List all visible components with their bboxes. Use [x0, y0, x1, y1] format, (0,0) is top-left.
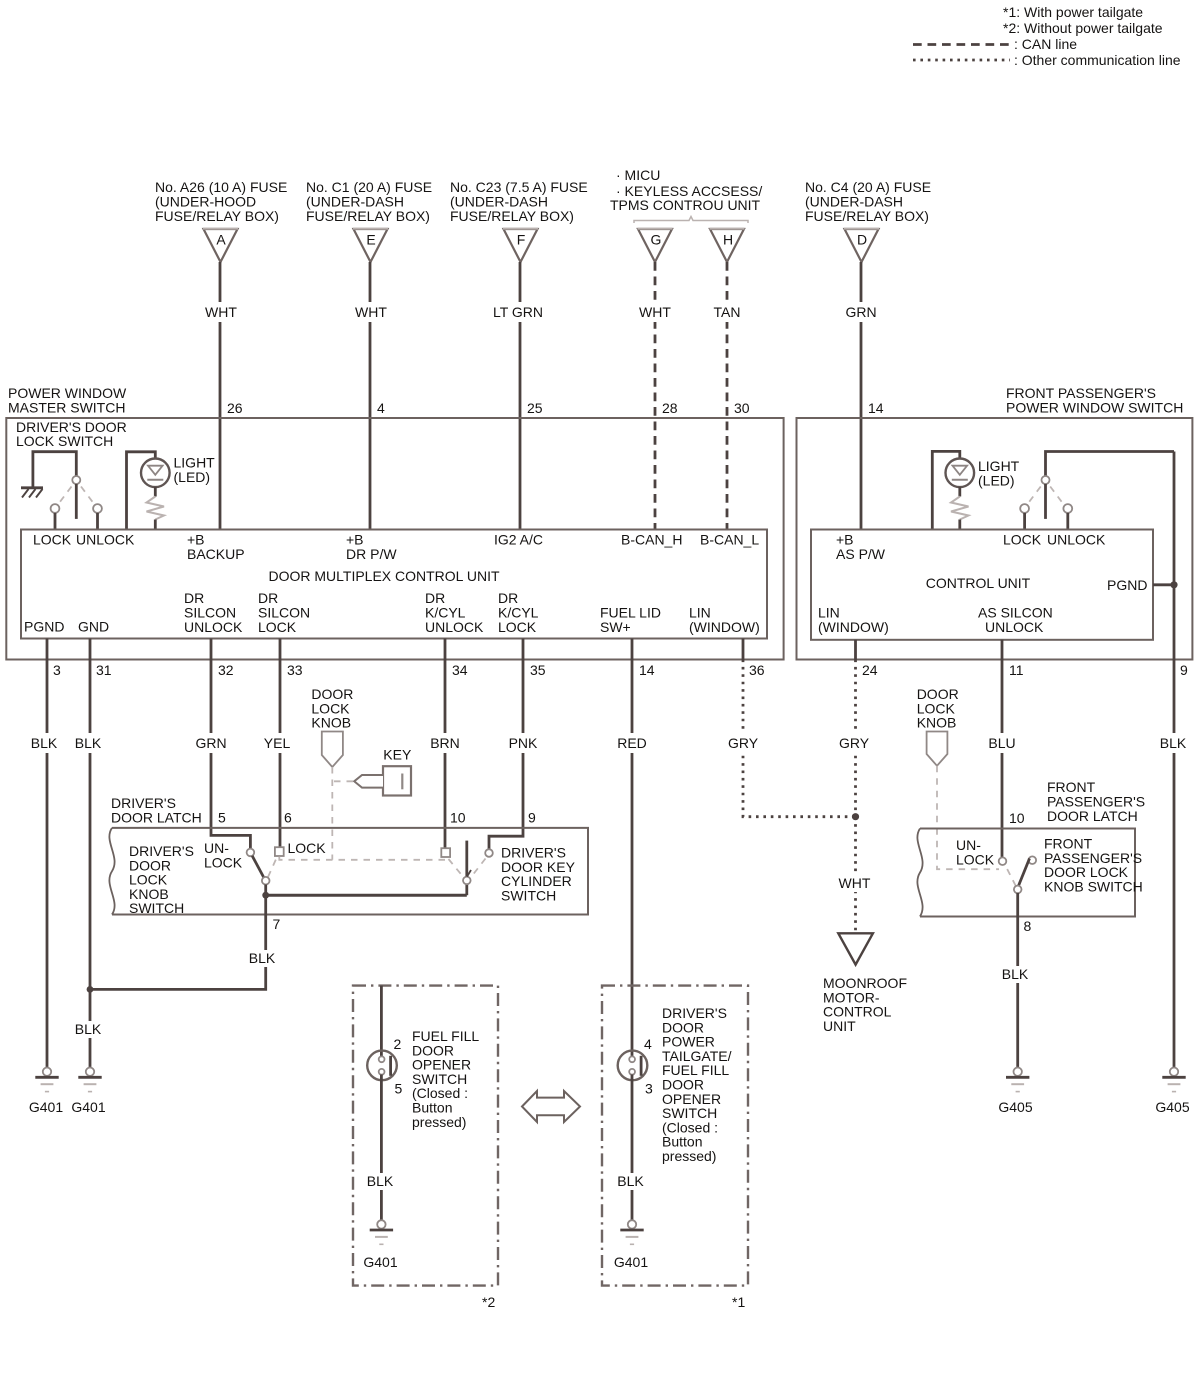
svg-text:11: 11 — [1009, 662, 1024, 678]
knob switch lock contact (square) — [275, 847, 284, 856]
svg-text:KNOB: KNOB — [917, 715, 957, 731]
key dashed link — [334, 780, 354, 782]
fuse A symbol — [204, 229, 238, 262]
svg-text:WHT: WHT — [839, 875, 871, 891]
svg-text:25: 25 — [527, 400, 543, 416]
svg-text:(WINDOW): (WINDOW) — [818, 619, 889, 635]
svg-text:(WINDOW): (WINDOW) — [689, 619, 760, 635]
svg-text:DR P/W: DR P/W — [346, 546, 397, 562]
wire fuse G to pin 28 CAN (WHT) — [654, 262, 657, 530]
driver door lock knob dashed link — [331, 767, 333, 860]
wire pin32 GRN to unlock contact — [211, 639, 250, 849]
svg-text:SWITCH: SWITCH — [501, 887, 556, 903]
svg-text:9: 9 — [528, 810, 536, 826]
svg-text:KNOB SWITCH: KNOB SWITCH — [1044, 878, 1143, 894]
svg-text:WHT: WHT — [205, 304, 237, 320]
driver's door lock switch UNLOCK contact — [93, 504, 102, 513]
svg-text:34: 34 — [452, 662, 468, 678]
driver's door latch box — [112, 828, 588, 915]
svg-text:FUSE/RELAY BOX): FUSE/RELAY BOX) — [306, 208, 430, 224]
passenger knob switch right contact — [1029, 856, 1037, 864]
svg-text:PNK: PNK — [509, 735, 538, 751]
fuel fill switch symbol — [367, 1051, 397, 1081]
svg-text:8: 8 — [1024, 918, 1032, 934]
svg-text:BACKUP: BACKUP — [187, 546, 245, 562]
svg-text:4: 4 — [644, 1036, 652, 1052]
svg-text:TPMS CONTROU UNIT: TPMS CONTROU UNIT — [610, 197, 761, 213]
passenger LED branch wire — [932, 451, 960, 529]
key cylinder BRN contact (square) — [441, 848, 450, 857]
LED lamp circle (LIGHT) — [141, 459, 170, 488]
driver's door power tailgate switch box (*1) — [602, 986, 748, 1286]
svg-text:LOCK: LOCK — [956, 852, 995, 868]
svg-text:UNLOCK: UNLOCK — [184, 619, 243, 635]
key cylinder switch arm vertical with arrow — [465, 841, 468, 877]
passenger knob dashed link — [937, 766, 999, 869]
control unit box — [811, 530, 1153, 640]
svg-text:36: 36 — [749, 662, 765, 678]
wire fuse A to pin 26 (WHT) — [219, 262, 222, 530]
passenger lock switch throw dashes — [1029, 487, 1041, 503]
knob switch arm — [252, 856, 264, 878]
passenger UNLOCK contact — [1063, 504, 1072, 513]
wire pin34 BRN to key cyl contact — [444, 639, 447, 849]
svg-text:UNLOCK: UNLOCK — [985, 619, 1044, 635]
junction on GND wire — [87, 986, 94, 993]
driver door lock knob symbol — [322, 732, 343, 768]
svg-text:24: 24 — [862, 662, 878, 678]
svg-text:BLK: BLK — [249, 950, 276, 966]
wire pin7 BLK to ground junction — [90, 898, 266, 989]
svg-text:LT GRN: LT GRN — [493, 304, 543, 320]
svg-text:WHT: WHT — [355, 304, 387, 320]
svg-text:MASTER SWITCH: MASTER SWITCH — [8, 400, 125, 416]
svg-text:WHT: WHT — [639, 304, 671, 320]
svg-text:BLK: BLK — [1160, 735, 1187, 751]
svg-text:35: 35 — [530, 662, 546, 678]
svg-text:B-CAN_L: B-CAN_L — [700, 532, 759, 548]
passenger knob switch arm — [1018, 859, 1029, 887]
svg-text:LOCK SWITCH: LOCK SWITCH — [16, 433, 113, 449]
BLK label above G401 — [72, 1021, 104, 1038]
svg-text:2: 2 — [394, 1036, 402, 1052]
door multiplex control unit box — [21, 530, 767, 639]
svg-text:GRN: GRN — [845, 304, 876, 320]
svg-text:LOCK: LOCK — [204, 854, 243, 870]
svg-text:7: 7 — [273, 916, 281, 932]
svg-text:DOOR LATCH: DOOR LATCH — [1047, 808, 1138, 824]
wire WHT to moonroof — [854, 817, 857, 934]
svg-text:G: G — [651, 232, 662, 248]
svg-text:PGND: PGND — [1107, 577, 1147, 593]
passenger resistor below LED — [958, 487, 961, 496]
svg-text:31: 31 — [96, 662, 112, 678]
passenger LED lamp circle (LIGHT) — [946, 459, 975, 488]
svg-text:GRY: GRY — [839, 735, 870, 751]
wire pin24 GRY communication — [854, 640, 857, 660]
svg-text:E: E — [366, 232, 375, 248]
svg-text:pressed): pressed) — [662, 1148, 716, 1164]
ground G401 (tailgate switch) — [628, 1220, 636, 1228]
wire pin8 BLK to G405 — [1016, 893, 1019, 1069]
svg-text:SW+: SW+ — [600, 619, 631, 635]
bracket over fuses G and H — [634, 217, 748, 224]
svg-text:3: 3 — [53, 662, 61, 678]
knob switch unlock contact — [247, 849, 255, 857]
wire into fuel fill switch — [380, 986, 383, 1057]
svg-text:H: H — [723, 232, 733, 248]
svg-text:SWITCH: SWITCH — [129, 900, 184, 916]
wire PGND pin3 BLK — [46, 639, 49, 1070]
svg-text:D: D — [857, 232, 867, 248]
junction PGND rail — [1170, 581, 1177, 588]
driver's door lock switch pivot — [72, 476, 80, 484]
svg-text:FUSE/RELAY BOX): FUSE/RELAY BOX) — [155, 208, 279, 224]
power window master switch outer box — [6, 418, 783, 660]
fuel fill door opener switch box (*2) — [353, 986, 498, 1286]
wire below tailgate switch BLK — [631, 1075, 634, 1223]
svg-text:10: 10 — [1009, 810, 1025, 826]
svg-text:POWER WINDOW SWITCH: POWER WINDOW SWITCH — [1006, 400, 1183, 416]
moonroof connector triangle — [838, 933, 873, 964]
driver's door lock switch bracket wire — [33, 452, 76, 487]
svg-text:KNOB: KNOB — [311, 715, 351, 731]
svg-text:DOOR MULTIPLEX CONTROL UNIT: DOOR MULTIPLEX CONTROL UNIT — [268, 568, 499, 584]
fuse D symbol — [845, 229, 879, 262]
passenger LED diode triangle — [953, 466, 968, 475]
svg-text:GRN: GRN — [195, 735, 226, 751]
front passenger's door latch box — [920, 829, 1135, 917]
svg-text:LOCK: LOCK — [1003, 532, 1042, 548]
svg-text:DOOR LATCH: DOOR LATCH — [111, 810, 202, 826]
dashed mechanical link knob/key to contacts — [279, 857, 445, 860]
driver's door lock switch LOCK contact — [51, 504, 60, 513]
wire PGND to right rail — [1153, 583, 1174, 586]
resistor below LED — [154, 487, 157, 496]
chassis ground for driver's door lock switch — [21, 486, 43, 489]
svg-text:LOCK: LOCK — [498, 619, 537, 635]
wire fuse F to pin 25 (LT GRN) — [519, 262, 522, 530]
driver's door lock switch arm — [75, 484, 78, 519]
svg-text:: Other communication line: : Other communication line — [1014, 52, 1181, 68]
svg-text:UNLOCK: UNLOCK — [76, 532, 135, 548]
svg-text:BLK: BLK — [75, 1021, 102, 1037]
svg-text:AS P/W: AS P/W — [836, 546, 886, 562]
svg-text:10: 10 — [450, 810, 466, 826]
wire pin9 BLK right rail label — [1157, 733, 1189, 753]
svg-text:14: 14 — [639, 662, 655, 678]
svg-text:LOCK: LOCK — [288, 840, 327, 856]
front passenger's power window switch outer box — [797, 418, 1193, 660]
svg-text:5: 5 — [395, 1081, 403, 1097]
svg-text:6: 6 — [284, 810, 292, 826]
svg-text:28: 28 — [662, 400, 678, 416]
svg-text:*1: *1 — [732, 1294, 745, 1310]
wire pin11 BLU — [1001, 640, 1004, 858]
svg-text:G401: G401 — [29, 1099, 63, 1115]
svg-text:YEL: YEL — [264, 735, 291, 751]
svg-text:B-CAN_H: B-CAN_H — [621, 532, 682, 548]
passenger knob switch pivot — [1014, 886, 1022, 894]
key cylinder switch pivot — [463, 877, 471, 885]
svg-text:(LED): (LED) — [174, 469, 211, 485]
svg-text:KEY: KEY — [383, 747, 412, 763]
passenger LOCK contact — [1020, 504, 1029, 513]
LED diode triangle — [148, 466, 163, 475]
wire GND pin31 BLK — [89, 639, 92, 1070]
junction pivot common — [262, 892, 269, 899]
svg-text:LOCK: LOCK — [33, 532, 72, 548]
svg-text:UNLOCK: UNLOCK — [425, 619, 484, 635]
svg-text:GND: GND — [78, 619, 109, 635]
svg-text:FUSE/RELAY BOX): FUSE/RELAY BOX) — [450, 208, 574, 224]
LED branch wire (master switch light) — [127, 452, 156, 530]
key cylinder PNK contact — [485, 849, 493, 857]
wire pin35 PNK to key cyl contact — [489, 639, 523, 850]
fuse F symbol — [504, 229, 538, 262]
fuse G symbol — [638, 229, 672, 262]
svg-text:UNLOCK: UNLOCK — [1047, 532, 1106, 548]
svg-text:4: 4 — [377, 400, 385, 416]
legend other communication line sample — [913, 59, 1010, 62]
svg-text:BRN: BRN — [430, 735, 460, 751]
svg-text:33: 33 — [287, 662, 303, 678]
svg-text:A: A — [216, 232, 226, 248]
wire below fuel fill switch BLK — [380, 1075, 383, 1223]
svg-text:LOCK: LOCK — [258, 619, 297, 635]
fuse E symbol — [354, 229, 388, 262]
svg-text:26: 26 — [227, 400, 243, 416]
svg-text:*2: *2 — [482, 1294, 495, 1310]
driver's door power tailgate switch symbol — [618, 1051, 648, 1081]
passenger lock switch bracket wire — [1046, 452, 1175, 477]
ground G401 (GND) — [86, 1068, 94, 1076]
passenger lock switch pivot — [1042, 476, 1050, 484]
svg-text:BLK: BLK — [31, 735, 58, 751]
svg-text:G401: G401 — [363, 1254, 397, 1270]
svg-text:G401: G401 — [614, 1254, 648, 1270]
wire pin36 GRY communication line — [742, 639, 745, 660]
junction GRY lines — [852, 813, 859, 820]
passenger knob switch alternate dash — [1005, 865, 1016, 886]
fuse H symbol — [710, 229, 744, 262]
ground G401 (PGND) — [43, 1068, 51, 1076]
svg-text:9: 9 — [1180, 662, 1188, 678]
wire pin14 RED to fuel lid switch — [631, 639, 634, 1058]
svg-text:PGND: PGND — [24, 619, 64, 635]
svg-text:BLK: BLK — [617, 1173, 644, 1189]
svg-text:pressed): pressed) — [412, 1114, 466, 1130]
svg-text:(LED): (LED) — [978, 473, 1015, 489]
svg-text:GRY: GRY — [728, 735, 759, 751]
wire fuse E to pin 4 (WHT) — [369, 262, 372, 530]
svg-text:3: 3 — [645, 1081, 653, 1097]
equivalence arrow — [522, 1091, 580, 1122]
svg-text:*1: With power tailgate: *1: With power tailgate — [1003, 4, 1143, 20]
svg-text:RED: RED — [617, 735, 647, 751]
common wire between switch pivots — [264, 885, 267, 896]
svg-text:*2: Without power tailgate: *2: Without power tailgate — [1003, 20, 1163, 36]
knob switch pivot — [262, 877, 270, 885]
svg-text:G405: G405 — [1155, 1099, 1189, 1115]
svg-text:BLK: BLK — [75, 735, 102, 751]
knob switch alternate position dash — [268, 857, 277, 877]
passenger door lock knob symbol — [927, 732, 948, 766]
ground G401 (fuel fill switch) — [377, 1220, 385, 1228]
svg-text:BLK: BLK — [1002, 966, 1029, 982]
wire fuse D to pin 14 (GRN) — [860, 262, 863, 530]
ground G405 (pin 9) — [1170, 1068, 1178, 1076]
svg-text:G405: G405 — [998, 1099, 1032, 1115]
key symbol — [383, 766, 411, 795]
svg-text:TAN: TAN — [714, 304, 741, 320]
svg-text:14: 14 — [868, 400, 884, 416]
ground G405 (passenger latch) — [1014, 1068, 1022, 1076]
svg-text:30: 30 — [734, 400, 750, 416]
wire fuse H to pin 30 CAN (TAN) — [726, 262, 729, 530]
driver's door lock switch throw dashes — [60, 487, 72, 503]
passenger knob switch unlock contact — [999, 857, 1007, 865]
passenger lock switch arm — [1044, 484, 1047, 519]
right side wire to PGND and pin 9 — [1173, 452, 1176, 1070]
svg-text:FUSE/RELAY BOX): FUSE/RELAY BOX) — [805, 208, 929, 224]
legend CAN line sample — [913, 43, 1010, 46]
svg-text:BLK: BLK — [367, 1173, 394, 1189]
key cylinder throw dashes — [449, 859, 463, 876]
svg-text:CONTROL UNIT: CONTROL UNIT — [926, 575, 1031, 591]
wire pin33 YEL to lock contact — [279, 639, 282, 847]
svg-text:UNIT: UNIT — [823, 1018, 856, 1034]
svg-text:· MICU: · MICU — [616, 167, 660, 183]
svg-text:IG2 A/C: IG2 A/C — [494, 532, 543, 548]
svg-text:5: 5 — [218, 810, 226, 826]
svg-text:: CAN line: : CAN line — [1014, 36, 1077, 52]
svg-text:BLU: BLU — [988, 735, 1015, 751]
svg-text:F: F — [517, 232, 526, 248]
svg-text:G401: G401 — [71, 1099, 105, 1115]
svg-text:32: 32 — [218, 662, 234, 678]
